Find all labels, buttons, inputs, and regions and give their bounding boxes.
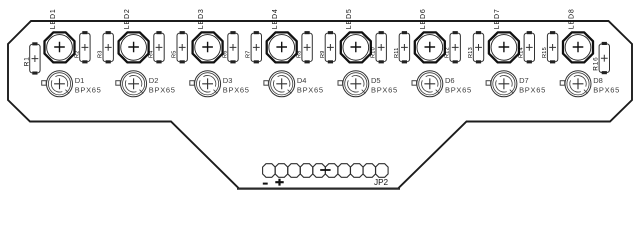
resistor R14 — [524, 31, 534, 63]
resistor R8 — [302, 31, 312, 63]
svg-text:BPX65: BPX65 — [445, 85, 472, 94]
svg-text:R4: R4 — [148, 50, 154, 58]
LED LED2 — [119, 32, 149, 62]
svg-text:JP2: JP2 — [374, 178, 389, 187]
LED LED8 — [563, 32, 593, 62]
polarity mark minus on JP2 pin5 — [320, 169, 330, 171]
resistor R6 — [228, 31, 238, 63]
pad 4 of JP2 — [300, 164, 313, 178]
LED LED1 — [45, 32, 75, 62]
resistor R2 — [80, 31, 90, 63]
svg-text:BPX65: BPX65 — [519, 85, 546, 94]
resistor R13 — [473, 31, 483, 63]
pad of D1 — [42, 81, 47, 86]
svg-text:D3: D3 — [223, 76, 233, 85]
resistor R3 — [103, 31, 113, 63]
photodiode D8 BPX65 — [565, 71, 591, 97]
svg-text:R6: R6 — [222, 50, 228, 58]
svg-text:LED3: LED3 — [198, 8, 205, 29]
svg-text:R14: R14 — [519, 47, 525, 58]
svg-text:LED7: LED7 — [494, 8, 501, 29]
svg-text:BPX65: BPX65 — [371, 85, 398, 94]
svg-text:R8: R8 — [297, 50, 303, 58]
LED LED4 — [267, 32, 297, 62]
resistor R1 — [30, 42, 40, 74]
resistor R16 — [599, 42, 609, 74]
svg-text:D4: D4 — [297, 76, 307, 85]
resistor R4 — [154, 31, 164, 63]
pad of D7 — [486, 81, 491, 86]
resistor R5 — [177, 31, 187, 63]
svg-text:D1: D1 — [75, 76, 85, 85]
board outline — [8, 21, 632, 189]
pad 6 of JP2 — [325, 164, 338, 178]
svg-text:R10: R10 — [371, 47, 377, 58]
svg-text:R5: R5 — [172, 50, 178, 58]
plus mark — [275, 179, 283, 186]
svg-text:BPX65: BPX65 — [223, 85, 250, 94]
svg-text:R7: R7 — [246, 50, 252, 58]
pad of D5 — [338, 81, 343, 86]
photodiode D4 BPX65 — [269, 71, 295, 97]
svg-text:LED6: LED6 — [420, 8, 427, 29]
svg-text:LED1: LED1 — [50, 8, 57, 29]
svg-text:BPX65: BPX65 — [149, 85, 176, 94]
svg-text:D2: D2 — [149, 76, 159, 85]
svg-text:R9: R9 — [320, 50, 326, 58]
LED LED5 — [341, 32, 371, 62]
board bottom edge — [237, 187, 400, 189]
svg-text:R13: R13 — [468, 47, 474, 58]
resistor R9 — [325, 31, 335, 63]
connector JP2 — [263, 164, 389, 178]
svg-text:R1: R1 — [23, 56, 30, 66]
minus mark — [263, 183, 268, 185]
svg-text:LED2: LED2 — [124, 8, 131, 29]
LED LED7 — [489, 32, 519, 62]
resistor R12 — [450, 31, 460, 63]
svg-text:LED4: LED4 — [272, 8, 279, 29]
svg-text:R15: R15 — [542, 47, 548, 58]
pad 2 of JP2 — [275, 164, 288, 178]
svg-text:D7: D7 — [519, 76, 529, 85]
svg-text:D6: D6 — [445, 76, 455, 85]
svg-text:R2: R2 — [74, 50, 80, 58]
pad 9 of JP2 — [363, 164, 376, 178]
photodiode D5 BPX65 — [343, 71, 369, 97]
pad 1 of JP2 — [263, 164, 276, 178]
photodiode D7 BPX65 — [491, 71, 517, 97]
svg-text:R12: R12 — [445, 47, 451, 58]
svg-text:D5: D5 — [371, 76, 381, 85]
pad of D2 — [116, 81, 121, 86]
resistor R10 — [376, 31, 386, 63]
svg-text:BPX65: BPX65 — [297, 85, 324, 94]
svg-text:BPX65: BPX65 — [593, 85, 620, 94]
pad 8 of JP2 — [350, 164, 363, 178]
resistor R15 — [547, 31, 557, 63]
svg-text:R16: R16 — [593, 56, 600, 70]
svg-text:D8: D8 — [593, 76, 603, 85]
pad of D3 — [190, 81, 195, 86]
resistor R7 — [251, 31, 261, 63]
LED LED6 — [415, 32, 445, 62]
svg-text:LED5: LED5 — [346, 8, 353, 29]
pad 10 of JP2 — [376, 164, 389, 178]
svg-text:R3: R3 — [98, 50, 104, 58]
photodiode D3 BPX65 — [195, 71, 221, 97]
pad 7 of JP2 — [338, 164, 351, 178]
pad of D4 — [264, 81, 269, 86]
svg-text:R11: R11 — [394, 47, 400, 58]
pad 5 of JP2 — [313, 164, 326, 178]
resistor R11 — [399, 31, 409, 63]
photodiode D6 BPX65 — [417, 71, 443, 97]
photodiode D1 BPX65 — [47, 71, 73, 97]
svg-text:BPX65: BPX65 — [75, 85, 102, 94]
LED LED3 — [193, 32, 223, 62]
svg-text:LED8: LED8 — [568, 8, 575, 29]
pad 3 of JP2 — [288, 164, 301, 178]
pad of D8 — [560, 81, 565, 86]
pad of D6 — [412, 81, 417, 86]
photodiode D2 BPX65 — [121, 71, 147, 97]
